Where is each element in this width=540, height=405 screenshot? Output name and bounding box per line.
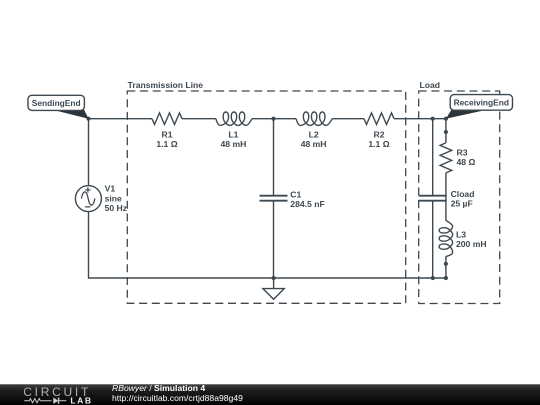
svg-text:L2: L2 — [309, 129, 319, 139]
svg-text:Cload: Cload — [451, 189, 475, 199]
svg-text:ReceivingEnd: ReceivingEnd — [454, 98, 509, 108]
svg-text:LAB: LAB — [70, 396, 92, 405]
svg-text:48 Ω: 48 Ω — [457, 157, 476, 167]
svg-text:L1: L1 — [228, 129, 238, 139]
svg-text:48 mH: 48 mH — [301, 139, 327, 149]
svg-text:R2: R2 — [374, 129, 385, 139]
svg-text:V1: V1 — [105, 184, 116, 194]
svg-text:48 mH: 48 mH — [221, 139, 247, 149]
svg-text:sine: sine — [105, 193, 122, 203]
svg-text:Load: Load — [420, 80, 441, 90]
svg-text:R1: R1 — [162, 129, 173, 139]
svg-text:284.5 nF: 284.5 nF — [290, 199, 324, 209]
svg-text:C1: C1 — [290, 189, 301, 199]
svg-text:200 mH: 200 mH — [456, 239, 487, 249]
svg-text:1.1 Ω: 1.1 Ω — [156, 139, 177, 149]
svg-text:25 µF: 25 µF — [451, 199, 473, 209]
svg-text:L3: L3 — [456, 229, 466, 239]
svg-text:R3: R3 — [457, 147, 468, 157]
svg-text:50 Hz: 50 Hz — [105, 203, 127, 213]
svg-text:SendingEnd: SendingEnd — [32, 98, 81, 108]
svg-text:1.1 Ω: 1.1 Ω — [368, 139, 389, 149]
svg-text:Transmission Line: Transmission Line — [128, 80, 204, 90]
